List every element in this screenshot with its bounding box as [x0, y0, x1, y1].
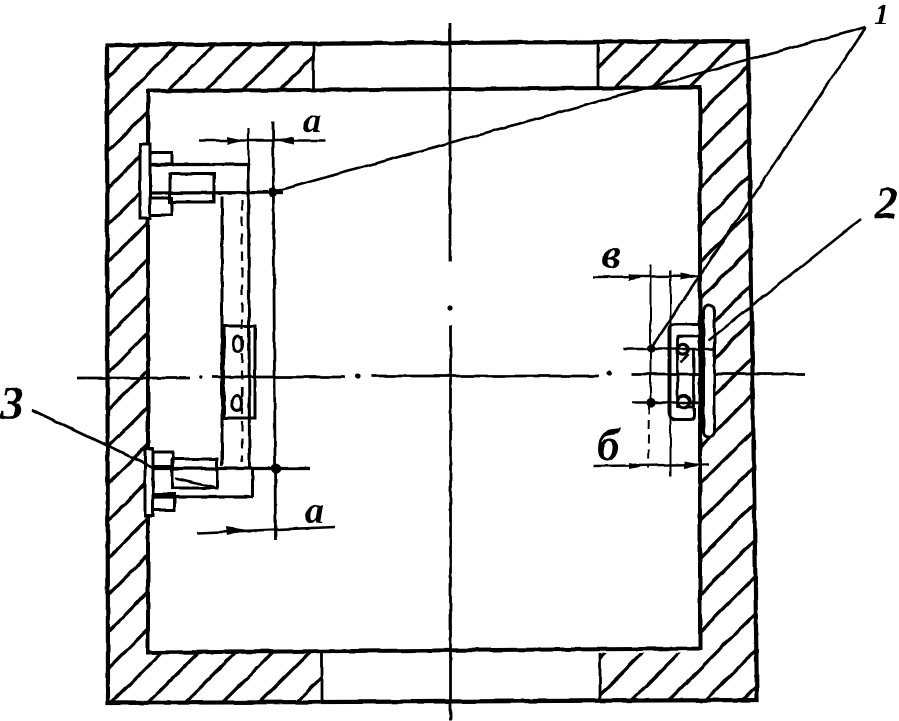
dim b arrow left: [629, 463, 646, 470]
svg-text:a: a: [305, 490, 324, 532]
rod middle plate: [224, 326, 255, 418]
catch ring upper: [678, 344, 688, 354]
hatch bottom-right wall block: [600, 653, 700, 701]
leader 1 to right catch: [652, 27, 866, 347]
dim a top arrow left: [227, 137, 246, 145]
svg-text:б: б: [597, 420, 621, 470]
top wall joint left: [312, 45, 315, 89]
dim b dimension line: [593, 465, 709, 467]
lower clamp arm right edge: [251, 468, 254, 497]
dim a top arrow right: [276, 137, 295, 145]
outer frame wall edge: [107, 41, 757, 703]
dim v extension line: [650, 265, 652, 405]
rod left edge: [221, 196, 224, 466]
upper clamp flange plate: [140, 144, 150, 218]
lower bolt axis dot: [271, 464, 281, 474]
plate hole lower: [232, 396, 242, 411]
upper bolt axis dot: [268, 188, 277, 197]
lower bolt line right: [632, 401, 702, 404]
dim b arrow right: [684, 462, 703, 469]
horizontal centerline: [77, 374, 805, 378]
upper clamp arm bottom edge: [150, 191, 283, 195]
dim v dimension line: [593, 276, 700, 277]
hatch top-right wall block: [598, 42, 700, 88]
svg-text:3: 3: [0, 377, 24, 430]
strap bracket inner contour: [678, 337, 705, 407]
bottom wall joint right: [599, 653, 602, 700]
dim extension line bracket edge: [670, 270, 672, 477]
rod dashed centerline: [241, 200, 243, 462]
hatch left wall: [107, 45, 322, 703]
svg-text:в: в: [602, 232, 621, 278]
bottom wall joint left: [321, 652, 324, 701]
vertical centerline: [449, 23, 452, 721]
dim a top dimension line: [199, 139, 325, 141]
lower clamp top nut: [153, 452, 173, 466]
leader 3: [32, 410, 152, 467]
dim v arrow left: [629, 274, 648, 281]
upper clamp top nut: [150, 153, 172, 165]
upper clamp bolt shank: [170, 174, 214, 202]
lower clamp arm bottom edge: [153, 495, 253, 498]
upper clamp bottom nut: [150, 198, 172, 215]
keeper plate on right wall: [704, 305, 715, 437]
centerline dot: [606, 371, 611, 376]
dim a bottom arrow: [226, 527, 248, 536]
dim a long extension line through bolt axes: [273, 122, 276, 540]
inner chamber wall edge: [148, 88, 700, 653]
rod right edge: [249, 164, 250, 468]
lower clamp flange plate: [145, 449, 153, 516]
lower clamp shank diagonal: [175, 478, 214, 487]
strap bracket outer contour: [669, 324, 705, 420]
lower bolt dot right: [646, 398, 655, 407]
upper bolt line right: [623, 348, 716, 351]
svg-text:2: 2: [874, 177, 899, 229]
plate hole upper: [233, 337, 243, 352]
dim b dashed extension line: [648, 405, 649, 468]
lower clamp bottom nut: [153, 494, 174, 510]
lower clamp bolt shank: [172, 459, 217, 488]
top wall joint right: [597, 42, 600, 88]
catch ring lower: [678, 396, 690, 408]
leader 1 to upper clamp: [273, 27, 866, 192]
small slash below upper ring: [681, 354, 689, 363]
hatch right wall: [700, 41, 757, 701]
svg-text:a: a: [303, 100, 321, 140]
dim v arrow right: [680, 273, 699, 280]
centerline dot: [199, 376, 203, 380]
hatch top-left wall block: [148, 45, 313, 90]
leader 2: [708, 219, 861, 341]
vertical centerline dot: [447, 305, 452, 310]
lower clamp arm top edge: [153, 467, 310, 470]
centerline dot: [355, 373, 360, 378]
dim a top extension line short: [247, 128, 249, 164]
dim a bottom dimension line: [197, 527, 335, 533]
upper bolt dot right: [647, 344, 655, 352]
svg-text:1: 1: [874, 0, 889, 31]
upper clamp arm top edge: [150, 163, 248, 166]
